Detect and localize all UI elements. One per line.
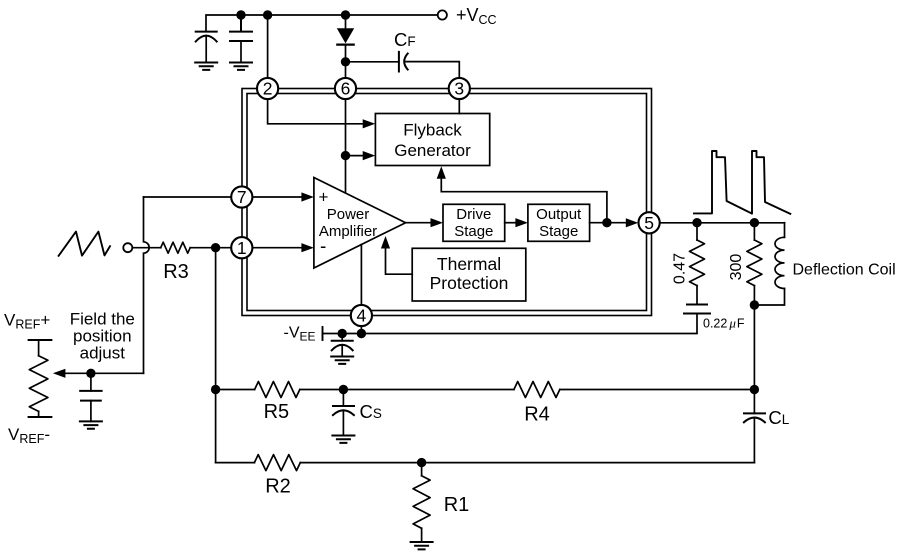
junction coil bottom: [750, 300, 759, 309]
svg-text:R1: R1: [444, 494, 470, 516]
svg-text:Drive: Drive: [456, 206, 491, 223]
inductor deflection coil: [754, 223, 784, 305]
svg-text:adjust: adjust: [80, 344, 126, 363]
junction node pin1/R3: [211, 243, 220, 252]
junction row1/CL: [750, 385, 759, 394]
svg-text:R4: R4: [524, 404, 550, 426]
terminal input: [123, 243, 132, 252]
ground: [80, 421, 102, 428]
svg-text:CF: CF: [394, 29, 416, 50]
wire pin1 input: [216, 247, 232, 249]
svg-text:+VCC: +VCC: [456, 5, 497, 27]
capacitor 0.22uF: [684, 305, 710, 314]
wire left vertical node column: [215, 248, 217, 463]
capacitor bypass 1 (polarized): [196, 32, 217, 63]
junction: [236, 10, 245, 19]
svg-text:Thermal: Thermal: [437, 254, 501, 274]
svg-text:5: 5: [644, 213, 654, 233]
svg-text:Power: Power: [327, 206, 370, 223]
svg-text:Flyback: Flyback: [403, 120, 462, 139]
svg-text:R5: R5: [264, 401, 290, 423]
wire pin7 branch with hop over R3 wire: [144, 197, 150, 373]
pin 6: [335, 78, 356, 99]
IC outline inner box: [247, 94, 647, 311]
svg-text:Amplifier: Amplifier: [319, 223, 377, 240]
wire feedback row 1: [216, 389, 755, 391]
svg-text:Deflection Coil: Deflection Coil: [793, 262, 896, 279]
wire pin5 output rail: [660, 222, 784, 224]
wire wiper to corner: [65, 372, 144, 374]
wire to pin 6: [345, 62, 347, 78]
wire output stage to node: [590, 222, 607, 224]
svg-text:Protection: Protection: [430, 273, 509, 293]
junction pin4 node: [357, 329, 366, 338]
wire op-amp to pin 4: [360, 245, 362, 306]
svg-text:R2: R2: [265, 476, 291, 498]
wire drive to output stage: [505, 222, 516, 224]
pin 4: [351, 305, 372, 326]
thermal protection block: [412, 248, 526, 301]
svg-text:2: 2: [263, 79, 273, 99]
svg-text:VREF-: VREF-: [8, 425, 50, 446]
junction: [692, 218, 701, 227]
capacitor CF: [346, 52, 460, 78]
capacitor bypass 2: [230, 15, 252, 63]
svg-text:Output: Output: [536, 206, 582, 223]
flyback generator block U1: [375, 114, 489, 166]
svg-text:CS: CS: [360, 401, 382, 422]
resistor R3: [161, 242, 191, 253]
ground: [332, 436, 354, 443]
svg-text:3: 3: [454, 79, 464, 99]
ground: [195, 63, 217, 70]
junction: [341, 10, 350, 19]
-Vee terminal tick: [322, 327, 324, 340]
wire to pin 2: [267, 15, 269, 78]
wire thermal protection to op-amp: [386, 248, 413, 274]
wire PA output to drive stage: [406, 222, 431, 224]
IC outline outer box: [242, 89, 652, 316]
pin 5: [639, 212, 660, 233]
svg-text:R3: R3: [163, 261, 189, 283]
junction: [211, 385, 220, 394]
wire pin4 to -Vee rail: [360, 326, 362, 333]
svg-text:CL: CL: [768, 407, 789, 428]
wire -Vee rail: [323, 314, 698, 334]
wire +Vcc top rail: [206, 15, 438, 32]
resistor R4: [514, 382, 560, 398]
pin 7: [231, 186, 252, 207]
wire node to pin5 arrow: [607, 222, 627, 224]
svg-text:1: 1: [237, 238, 247, 258]
resistor R5: [255, 382, 300, 398]
wire R3 to pin1 node: [190, 247, 215, 249]
svg-text:4: 4: [357, 306, 367, 326]
svg-text:Stage: Stage: [454, 223, 493, 240]
junction: [338, 329, 347, 338]
svg-text:300: 300: [728, 254, 745, 281]
wire input to R3: [132, 247, 160, 249]
svg-text:0.47: 0.47: [672, 253, 689, 284]
wire pin7 input: [144, 196, 232, 198]
ground: [411, 542, 433, 549]
wire coil node down to feedback row: [753, 305, 755, 390]
resistor 0.47: [690, 223, 705, 305]
terminal +Vcc: [438, 10, 447, 19]
wire feedback row 2: [216, 462, 755, 464]
capacitor Cs (polarized): [333, 390, 354, 436]
flyback feedback wire: [441, 178, 607, 219]
svg-text:-VEE: -VEE: [284, 325, 316, 344]
ground: [331, 357, 353, 364]
junction: [341, 57, 350, 66]
svg-text:0.22μF: 0.22μF: [703, 316, 745, 331]
wire pin3 to flyback generator: [458, 100, 460, 114]
svg-text:Stage: Stage: [539, 223, 578, 240]
output stage block: [528, 204, 590, 241]
diode D1: [337, 15, 354, 62]
pin 3: [449, 78, 470, 99]
waveform flyback pulses: [694, 151, 790, 214]
svg-text:7: 7: [237, 187, 247, 207]
resistor R1: [413, 463, 430, 542]
capacitor -Vee bypass (polarized): [332, 334, 353, 357]
svg-text:6: 6: [341, 79, 351, 99]
op-amp power amplifier: [314, 178, 406, 269]
ground: [230, 63, 252, 70]
junction R1 node: [417, 458, 426, 467]
svg-text:VREF+: VREF+: [4, 311, 50, 332]
wire pin6 down / junction / arrow to flyback: [345, 100, 347, 194]
svg-text:+: +: [319, 188, 329, 207]
svg-text:Generator: Generator: [394, 141, 471, 160]
capacitor CL: [744, 390, 765, 463]
junction: [263, 10, 272, 19]
junction: [86, 369, 95, 378]
resistor 300: [747, 223, 762, 305]
drive stage block: [443, 204, 505, 241]
junction Cs node: [339, 385, 348, 394]
potentiometer Vref: [29, 340, 52, 417]
pin 2: [257, 78, 278, 99]
junction: [750, 218, 759, 227]
wire pin2 to flyback generator: [268, 100, 364, 124]
sawtooth input waveform: [59, 232, 110, 256]
resistor R2: [254, 455, 300, 471]
capacitor at wiper node: [80, 373, 101, 421]
pin 1: [231, 237, 252, 258]
